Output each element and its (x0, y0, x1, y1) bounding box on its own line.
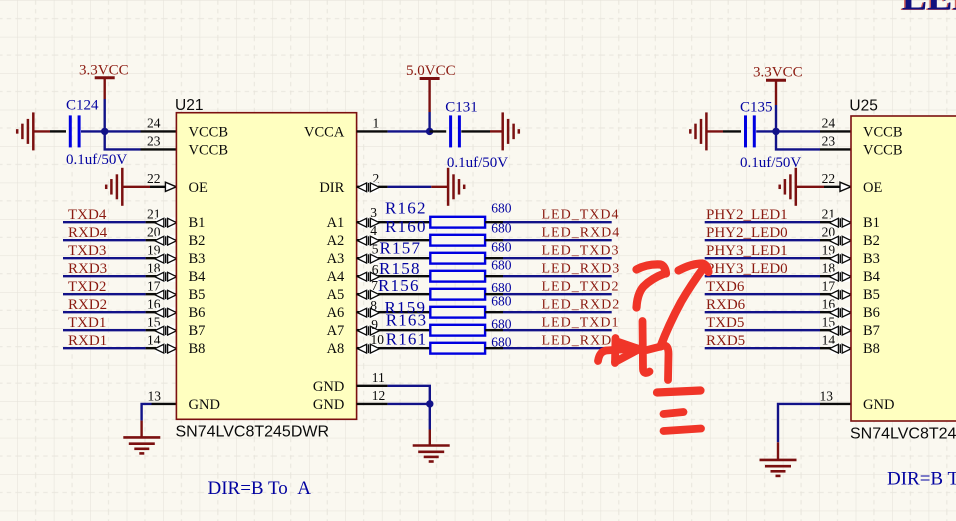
pin glyph A7 U21 (359, 326, 378, 336)
capacitor C135 (744, 115, 747, 147)
red marker LED sketch: cathode lead and bend (647, 346, 669, 381)
svg-text:GND: GND (313, 379, 344, 395)
pin glyph DIR U21 (359, 182, 378, 192)
svg-text:R161: R161 (386, 330, 428, 349)
pin glyph B1 U25 (831, 218, 850, 228)
svg-text:3: 3 (370, 205, 377, 220)
svg-text:U21: U21 (175, 97, 203, 114)
svg-text:C124: C124 (66, 98, 99, 114)
svg-text:3.3VCC: 3.3VCC (79, 63, 129, 79)
red marker LED sketch: diode triangle (615, 338, 638, 363)
svg-text:B1: B1 (863, 215, 880, 231)
pin glyph A2 U21 (359, 236, 378, 246)
svg-text:B3: B3 (189, 251, 206, 267)
resistor R159 (430, 307, 485, 318)
svg-text:PHY2_LED1: PHY2_LED1 (706, 207, 788, 223)
wire U21 pin A4 to R158 (357, 275, 431, 277)
svg-text:B8: B8 (189, 341, 206, 357)
svg-text:RXD1: RXD1 (68, 333, 107, 349)
svg-text:C131: C131 (445, 100, 478, 116)
ground GND left of C124 (32, 112, 35, 150)
svg-text:A2: A2 (327, 233, 345, 249)
svg-text:RXD2: RXD2 (68, 297, 107, 313)
svg-text:0.1uf/50V: 0.1uf/50V (740, 155, 801, 171)
wire junction down to U21 pin 23 (105, 131, 141, 149)
pin glyph B6 U21 (156, 308, 175, 318)
ground at DIR row (447, 168, 450, 206)
pin glyph B3 U21 (156, 254, 175, 264)
svg-text:SN74LVC8T245DWR: SN74LVC8T245DWR (850, 425, 956, 442)
svg-text:PHY2_LED0: PHY2_LED0 (706, 225, 788, 241)
power port 3.3VCC left (95, 76, 115, 79)
svg-text:LED_RXD1: LED_RXD1 (542, 334, 621, 349)
pin glyph B5 U25 (831, 290, 850, 300)
svg-text:GND: GND (863, 397, 894, 413)
svg-text:680: 680 (491, 240, 512, 255)
wire U21 pin A3 to R157 (357, 257, 431, 259)
wire net TXD1 (63, 329, 146, 331)
svg-text:DIR: DIR (319, 180, 344, 196)
power port 5.0VCC (420, 77, 440, 80)
resistor R157 (430, 253, 485, 264)
svg-text:GND: GND (189, 397, 220, 413)
pin glyph B3 U25 (831, 254, 850, 264)
svg-text:RXD3: RXD3 (68, 261, 107, 277)
svg-text:B6: B6 (189, 305, 206, 321)
svg-text:A5: A5 (327, 287, 345, 303)
svg-text:B8: B8 (863, 341, 880, 357)
red marker ground bar 1 (657, 391, 701, 393)
pin glyph B2 U25 (831, 236, 850, 246)
input arrow OE U25 (840, 182, 851, 191)
svg-text:3.3VCC: 3.3VCC (753, 65, 803, 81)
wire net RXD6 (705, 311, 820, 313)
svg-text:A1: A1 (327, 215, 345, 231)
wire R157 to net LED_TXD3 (485, 257, 503, 259)
pin glyph A3 U21 (359, 254, 378, 264)
svg-text:LED_RXD3: LED_RXD3 (542, 262, 621, 277)
svg-text:TXD4: TXD4 (68, 207, 107, 223)
wire U25 pin 13 to ground (820, 403, 851, 405)
ground at U21 pins 11 12 (413, 444, 450, 447)
wire net TXD4 (63, 221, 146, 223)
svg-text:B2: B2 (863, 233, 880, 249)
wire ground to OE pin 22 (122, 186, 150, 188)
wire ground to C135 (706, 130, 723, 132)
svg-text:OE: OE (189, 180, 208, 196)
svg-text:10: 10 (371, 332, 385, 347)
input arrow OE U21 (165, 182, 176, 191)
wire C131 to ground (461, 130, 490, 132)
wire GND node to ground (429, 404, 431, 430)
pin glyph B4 U25 (831, 272, 850, 282)
wire ground to C124 (33, 130, 50, 132)
svg-text:RXD4: RXD4 (68, 225, 108, 241)
ground left of C135 (705, 112, 708, 150)
svg-text:B5: B5 (189, 287, 206, 303)
pin glyph A5 U21 (359, 290, 378, 300)
wire junction down to U25 pin 23 (776, 131, 820, 149)
svg-text:B2: B2 (189, 233, 206, 249)
red marker arrow 2 (661, 264, 709, 347)
svg-text:23: 23 (147, 134, 161, 149)
wire node to C131 (430, 130, 447, 132)
svg-text:24: 24 (147, 116, 161, 131)
wire U21 pin 11 (357, 385, 388, 387)
wire U21 pin 1 VCCA to node (357, 130, 388, 132)
svg-text:5: 5 (372, 242, 379, 257)
svg-text:TXD1: TXD1 (68, 315, 106, 331)
svg-text:TXD5: TXD5 (706, 315, 744, 331)
wire U21 pin A2 to R160 (357, 239, 431, 241)
wire net PHY3_LED0 (705, 275, 820, 277)
junction at 3.3VCC node (101, 128, 108, 135)
wire net TXD3 (63, 257, 146, 259)
svg-text:4: 4 (370, 223, 377, 238)
red marker arrow 1 (637, 264, 667, 307)
wire net TXD2 (63, 293, 146, 295)
svg-text:13: 13 (820, 388, 834, 403)
ground at U21 pin 13 (123, 436, 160, 439)
svg-text:680: 680 (491, 201, 512, 216)
wire net RXD4 (63, 239, 146, 241)
resistor R158 (430, 271, 485, 282)
red marker ground bar 3 (664, 429, 702, 432)
wire net PHY2_LED1 (705, 221, 820, 223)
wire net RXD1 (63, 347, 146, 349)
resistor R161 (430, 343, 485, 354)
resistor R163 (430, 325, 485, 336)
svg-text:8: 8 (370, 298, 377, 313)
svg-text:R158: R158 (379, 259, 421, 278)
svg-text:A3: A3 (327, 251, 345, 267)
wire C135 to U25 pin 24 (756, 130, 820, 132)
pin glyph A6 U21 (359, 308, 378, 318)
wire R159 to net LED_RXD2 (485, 311, 503, 313)
red marker LED sketch: anode lead (598, 349, 636, 362)
svg-text:LED_TXD3: LED_TXD3 (542, 244, 620, 259)
wire net TXD6 (705, 293, 820, 295)
IC U25 body (clipped right) (851, 116, 956, 421)
pin glyph A1 U21 (359, 218, 378, 228)
ground at U25 OE pin (795, 168, 798, 206)
svg-text:680: 680 (491, 221, 512, 236)
wire R160 to net LED_RXD4 (485, 239, 503, 241)
svg-text:DIR=B To A: DIR=B To A (208, 478, 312, 499)
svg-text:5.0VCC: 5.0VCC (406, 63, 456, 79)
svg-text:22: 22 (822, 171, 836, 186)
wire net PHY3_LED1 (705, 257, 820, 259)
svg-text:11: 11 (372, 370, 385, 385)
wire U21 pin 13 to ground (152, 403, 177, 405)
svg-text:TXD3: TXD3 (68, 243, 106, 259)
wire R156 to net LED_TXD2 (485, 293, 503, 295)
svg-text:A7: A7 (327, 323, 345, 339)
wire net RXD5 (705, 347, 820, 349)
power port 3.3VCC right (766, 79, 786, 82)
svg-text:LED: LED (902, 0, 956, 18)
svg-text:LED_TXD1: LED_TXD1 (542, 316, 620, 331)
svg-text:A6: A6 (327, 305, 345, 321)
red marker LED sketch: cathode bar (643, 321, 650, 373)
junction 5.0VCC node (426, 128, 433, 135)
wire net RXD3 (63, 275, 146, 277)
svg-text:23: 23 (822, 134, 836, 149)
capacitor C124 (69, 115, 72, 147)
junction right 3.3VCC node (772, 128, 779, 135)
svg-text:B6: B6 (863, 305, 880, 321)
svg-text:A4: A4 (327, 269, 345, 285)
svg-text:LED_RXD2: LED_RXD2 (542, 298, 621, 313)
ground at U25 pin 13 (760, 459, 797, 462)
svg-text:PHY3_LED1: PHY3_LED1 (706, 243, 788, 259)
svg-text:LED_TXD2: LED_TXD2 (542, 280, 620, 295)
wire U21 pin A6 to R159 (357, 311, 431, 313)
svg-text:B4: B4 (863, 269, 881, 285)
pin glyph B8 U21 (156, 344, 175, 354)
pin glyph A8 U21 (359, 344, 378, 354)
ground at U21 OE pin (121, 168, 124, 206)
svg-text:12: 12 (372, 388, 386, 403)
red marker ground bar 2 (664, 412, 684, 414)
pin glyph B7 U25 (831, 326, 850, 336)
svg-text:VCCA: VCCA (304, 124, 345, 140)
wire R158 to net LED_RXD3 (485, 275, 503, 277)
pin glyph B5 U21 (156, 290, 175, 300)
wire U21 pin 12 (357, 403, 388, 405)
svg-text:R160: R160 (385, 217, 427, 236)
wire R161 to net LED_RXD1 (485, 347, 503, 349)
pin glyph A4 U21 (359, 272, 378, 282)
wire U21 pin 2 DIR to ground (357, 186, 388, 188)
pin glyph B8 U25 (831, 344, 850, 354)
svg-text:0.1uf/50V: 0.1uf/50V (66, 152, 127, 168)
resistor R156 (430, 289, 485, 300)
svg-text:SN74LVC8T245DWR: SN74LVC8T245DWR (176, 424, 330, 441)
svg-text:22: 22 (147, 171, 161, 186)
svg-text:VCCB: VCCB (189, 124, 229, 140)
wire net RXD2 (63, 311, 146, 313)
svg-text:0.1uf/50V: 0.1uf/50V (447, 155, 508, 171)
junction GND node (426, 400, 433, 407)
svg-text:R163: R163 (386, 311, 428, 330)
svg-text:B3: B3 (863, 251, 880, 267)
svg-text:B4: B4 (189, 269, 207, 285)
svg-text:24: 24 (822, 116, 836, 131)
svg-text:C135: C135 (740, 100, 773, 116)
wire U21 pin A1 to R162 (357, 221, 431, 223)
svg-text:A8: A8 (327, 341, 345, 357)
resistor R160 (430, 235, 485, 246)
ground right of C131 (501, 112, 504, 150)
svg-text:9: 9 (371, 317, 378, 332)
wire U21 pin A8 to R161 (357, 347, 431, 349)
pin glyph B4 U21 (156, 272, 175, 282)
pin glyph B2 U21 (156, 236, 175, 246)
wire U21 pin A5 to R156 (357, 293, 431, 295)
svg-text:RXD5: RXD5 (706, 333, 745, 349)
wire U21 pin A7 to R163 (357, 329, 431, 331)
svg-text:13: 13 (148, 388, 162, 403)
svg-text:6: 6 (372, 262, 379, 277)
svg-text:VCCB: VCCB (863, 142, 903, 158)
svg-text:RXD6: RXD6 (706, 297, 746, 313)
svg-text:B5: B5 (863, 287, 880, 303)
wire C124 to U21 pin 24 (81, 130, 141, 132)
svg-text:680: 680 (491, 294, 512, 309)
svg-text:TXD2: TXD2 (68, 279, 106, 295)
svg-text:R156: R156 (378, 276, 420, 295)
svg-text:DIR=B T: DIR=B T (887, 469, 956, 490)
pin glyph B6 U25 (831, 308, 850, 318)
svg-text:R162: R162 (385, 199, 427, 218)
svg-text:LED_RXD4: LED_RXD4 (542, 226, 621, 241)
svg-text:VCCB: VCCB (863, 124, 903, 140)
svg-text:OE: OE (863, 180, 882, 196)
svg-text:B7: B7 (863, 323, 880, 339)
svg-text:LED_TXD4: LED_TXD4 (542, 208, 620, 223)
svg-text:B1: B1 (189, 215, 206, 231)
wire net TXD5 (705, 329, 820, 331)
wire R162 to net LED_TXD4 (485, 221, 503, 223)
svg-text:1: 1 (373, 115, 380, 130)
svg-text:U25: U25 (849, 97, 877, 114)
svg-text:TXD6: TXD6 (706, 279, 745, 295)
capacitor C131 (449, 115, 452, 147)
svg-text:GND: GND (313, 397, 344, 413)
svg-text:R157: R157 (380, 238, 422, 257)
wire net PHY2_LED0 (705, 239, 820, 241)
pin glyph B1 U21 (156, 218, 175, 228)
wire R163 to net LED_TXD1 (485, 329, 503, 331)
svg-text:B7: B7 (189, 323, 206, 339)
op IC U21 body (176, 113, 356, 420)
svg-text:VCCB: VCCB (189, 142, 229, 158)
pin glyph B7 U21 (156, 326, 175, 336)
svg-text:PHY3_LED0: PHY3_LED0 (706, 261, 788, 277)
resistor R162 (430, 217, 485, 228)
svg-text:680: 680 (491, 258, 512, 273)
wire ground to U25 OE (796, 186, 824, 188)
